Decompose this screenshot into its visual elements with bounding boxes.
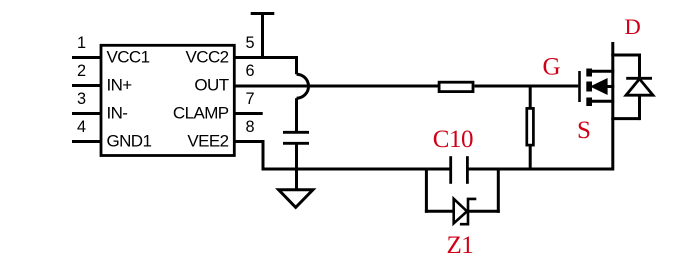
wire capacitor to ground bbox=[295, 145, 298, 191]
diode body cathode bar bbox=[626, 77, 652, 80]
svg-text:VCC1: VCC1 bbox=[107, 48, 150, 67]
transistor Q1 channel segment middle bbox=[586, 82, 592, 92]
svg-text:1: 1 bbox=[77, 34, 86, 52]
svg-text:6: 6 bbox=[246, 62, 255, 80]
svg-text:IN-: IN- bbox=[107, 104, 128, 123]
svg-text:VCC2: VCC2 bbox=[186, 48, 229, 67]
wire diode bottom tap bbox=[611, 117, 639, 120]
wire Z1 loop left vertical bbox=[425, 168, 428, 213]
wire diode top tap bbox=[611, 54, 639, 57]
power rail bar bbox=[251, 12, 275, 15]
capacitor C bypass top plate bbox=[283, 131, 309, 134]
wire VCC2 branch vertical above hop bbox=[295, 56, 298, 74]
svg-text:IN+: IN+ bbox=[107, 76, 133, 95]
transistor Q1 source stub bbox=[590, 100, 614, 103]
resistor R gate-source (vertical) bbox=[527, 108, 534, 145]
diode body top lead bbox=[638, 54, 641, 79]
capacitor C bypass bottom plate bbox=[283, 142, 309, 145]
svg-text:S: S bbox=[577, 117, 591, 144]
wire Z1 loop right vertical bbox=[497, 168, 500, 213]
svg-text:8: 8 bbox=[246, 118, 255, 136]
transistor Q1 body arrow bbox=[591, 79, 608, 95]
wire drain-source bus vertical bbox=[611, 42, 614, 171]
capacitor C10 right plate bbox=[466, 156, 469, 184]
svg-text:5: 5 bbox=[246, 34, 255, 52]
transistor Q1 channel segment bottom bbox=[586, 98, 592, 107]
wire resistor to gate bbox=[475, 85, 579, 88]
capacitor C10 left plate bbox=[449, 156, 452, 184]
svg-text:G: G bbox=[543, 53, 561, 80]
diode body triangle bbox=[626, 79, 653, 95]
diode body bottom lead bbox=[638, 95, 641, 120]
power rail VCC2 vertical bbox=[261, 13, 264, 59]
wire pin4 stub bbox=[72, 140, 101, 143]
op-amp U1 (gate driver IC body) bbox=[101, 45, 234, 155]
wire pin5 VCC2 horizontal bbox=[234, 56, 298, 59]
transistor Q1 channel segment top bbox=[586, 69, 592, 77]
svg-text:7: 7 bbox=[246, 90, 255, 108]
ground symbol bbox=[279, 190, 313, 208]
wire resistor top lead bbox=[529, 86, 532, 108]
svg-text:4: 4 bbox=[77, 118, 86, 136]
wire pin2 stub bbox=[72, 84, 101, 87]
svg-text:OUT: OUT bbox=[194, 76, 228, 95]
transistor Q1 gate bar bbox=[578, 71, 581, 102]
zener Z1 cathode bar with tabs bbox=[460, 199, 476, 224]
svg-text:C10: C10 bbox=[433, 126, 473, 153]
wire pin8 down bbox=[262, 140, 265, 171]
wire pin3 stub bbox=[72, 112, 101, 115]
wire bottom rail right of C10 bbox=[467, 168, 612, 171]
svg-text:Z1: Z1 bbox=[447, 232, 474, 259]
svg-text:3: 3 bbox=[77, 90, 86, 108]
wire pin8 VEE2 horizontal bbox=[234, 140, 263, 143]
resistor R gate (horizontal) bbox=[439, 82, 473, 91]
wire bottom rail left of C10 bbox=[262, 168, 451, 171]
svg-text:CLAMP: CLAMP bbox=[173, 104, 229, 123]
zener Z1 triangle bbox=[454, 199, 467, 224]
wire Z1 loop bottom right bbox=[468, 210, 500, 213]
wire resistor bottom lead bbox=[529, 145, 532, 169]
wire hop to capacitor bbox=[295, 98, 298, 131]
wire hop over OUT bbox=[297, 74, 309, 98]
transistor Q1 drain stub bbox=[590, 70, 614, 73]
svg-text:GND1: GND1 bbox=[107, 132, 152, 151]
svg-text:2: 2 bbox=[77, 62, 86, 80]
wire pin1 stub bbox=[72, 56, 101, 59]
wire OUT horizontal to resistor bbox=[234, 85, 438, 88]
svg-text:VEE2: VEE2 bbox=[187, 132, 228, 151]
svg-text:D: D bbox=[625, 14, 641, 39]
wire pin7 CLAMP stub bbox=[234, 112, 262, 115]
transistor Q1 body lead bbox=[607, 85, 614, 88]
wire Z1 loop bottom left bbox=[425, 210, 454, 213]
